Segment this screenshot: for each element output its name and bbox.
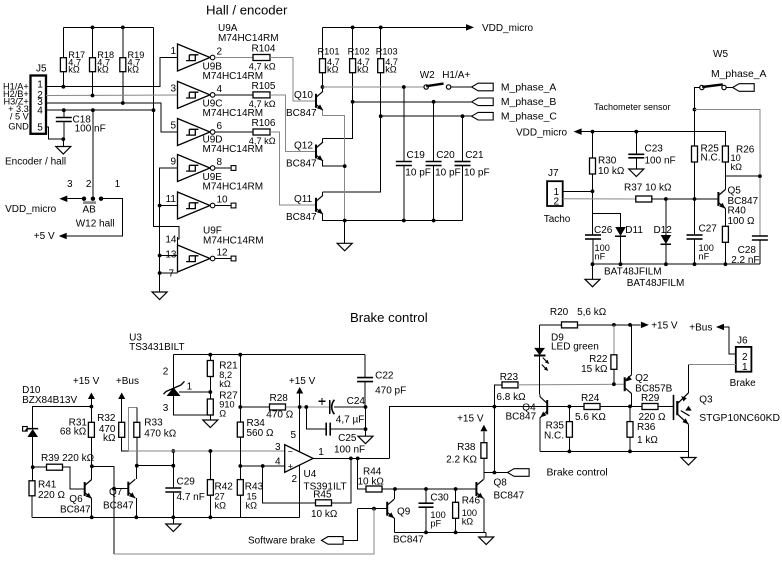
- svg-text:5: 5: [290, 430, 296, 441]
- svg-text:R104: R104: [252, 43, 276, 54]
- junction R45 feedback plus: [261, 464, 265, 468]
- wire unused-input ground bus: [160, 168, 178, 292]
- resistor R30 10 kOhm: [592, 132, 594, 158]
- junction rail C20: [432, 219, 436, 223]
- wire R46 to emitter row: [455, 518, 457, 532]
- junction R102 row B: [351, 100, 355, 104]
- net arrow VDD_micro tacho: [574, 128, 582, 135]
- svg-text:470 Ω: 470 Ω: [266, 410, 293, 421]
- svg-text:AB: AB: [83, 204, 97, 215]
- svg-text:15 kΩ: 15 kΩ: [581, 364, 608, 375]
- svg-text:BC847: BC847: [494, 490, 525, 501]
- wire VDD tacho rail: [582, 132, 726, 146]
- capacitor C25 100 nF: [326, 423, 330, 436]
- resistor R22 15 kOhm: [611, 355, 617, 370]
- svg-text:M_phase_B: M_phase_B: [501, 97, 557, 108]
- svg-text:+Bus: +Bus: [689, 323, 712, 334]
- svg-text:BC847: BC847: [286, 159, 317, 170]
- inverter U9B M74HC14RM: [178, 81, 211, 108]
- svg-text:3: 3: [170, 83, 176, 94]
- svg-text:11: 11: [166, 194, 177, 205]
- svg-text:+5 V: +5 V: [34, 231, 55, 242]
- svg-text:U9A: U9A: [218, 23, 238, 34]
- svg-text:nF: nF: [595, 252, 606, 262]
- svg-text:BC847: BC847: [286, 212, 317, 223]
- wire R38 to Q8 collector node: [483, 458, 485, 472]
- junction Q6 emitter rail: [90, 515, 94, 519]
- wire R44 to Q8 base: [382, 488, 476, 490]
- resistor R104 4,7 kOhm: [253, 55, 270, 61]
- junction rail ground tacho: [591, 262, 595, 266]
- svg-text:3: 3: [67, 179, 73, 190]
- junction C27 node: [693, 197, 697, 201]
- wire R35 to rail: [568, 437, 570, 451]
- wire Q11 emitter: [323, 214, 463, 220]
- junction C29 rail: [171, 515, 175, 519]
- svg-text:7: 7: [168, 268, 174, 279]
- wire Q2 emitter: [631, 325, 633, 375]
- wire R44 branch: [358, 458, 366, 489]
- junction R34 R28 node: [238, 405, 242, 409]
- wire U9F output stub: [215, 258, 231, 260]
- wire R41 to rail: [31, 496, 33, 518]
- svg-text:560 Ω: 560 Ω: [247, 428, 274, 439]
- wire pin13 stub: [160, 255, 178, 257]
- jumper W12 hall: [82, 197, 86, 201]
- junction R22 bottom: [612, 382, 616, 386]
- wire R22 to base row: [613, 369, 615, 384]
- wire R18 lead: [92, 72, 94, 96]
- wire R32 to R33 link: [122, 437, 129, 451]
- wire R20 row: [540, 324, 562, 326]
- svg-text:5: 5: [37, 123, 43, 134]
- svg-text:BC847: BC847: [393, 535, 424, 546]
- svg-text:STGP10NC60KD: STGP10NC60KD: [699, 413, 780, 424]
- flag Brake control: [508, 469, 530, 477]
- svg-text:M74HC14RM: M74HC14RM: [203, 235, 264, 246]
- svg-text:4: 4: [217, 84, 223, 95]
- svg-text:3: 3: [163, 403, 169, 414]
- resistor R39 220 kOhm: [33, 466, 48, 468]
- wire plus input row: [240, 465, 284, 467]
- svg-text:J7: J7: [548, 168, 559, 179]
- svg-text:10 kΩ: 10 kΩ: [358, 476, 385, 487]
- junction pin2 R18: [91, 94, 95, 98]
- junction Q4 node R23: [493, 405, 497, 409]
- junction brake control node: [493, 471, 497, 475]
- svg-text:kΩ: kΩ: [68, 64, 80, 74]
- svg-text:100 Ω: 100 Ω: [728, 216, 755, 227]
- igbt Q3 STGP10NC60KD: [674, 393, 690, 425]
- junction R25 branch: [693, 108, 697, 112]
- svg-text:C23: C23: [645, 144, 664, 155]
- wire Q8 collector row to flag: [484, 472, 508, 474]
- zener diode D10 BZX84B13V: [23, 427, 28, 432]
- capacitor C29 4.7 nF: [165, 488, 181, 492]
- wire R21 to ref: [209, 377, 211, 393]
- wire Q4 node vertical: [493, 407, 495, 473]
- svg-text:C21: C21: [465, 150, 484, 161]
- wire R43 to rail: [239, 495, 241, 517]
- flag Software brake: [322, 537, 344, 545]
- terminator pin 8: [231, 166, 236, 171]
- svg-text:4: 4: [275, 456, 281, 467]
- junction supply pin4: [152, 108, 156, 112]
- svg-text:+15 V: +15 V: [289, 376, 316, 387]
- wire Q6 collector to Q7 base: [92, 466, 128, 488]
- resistor R32 470 kOhm: [119, 422, 125, 437]
- wire W5 left to R25: [695, 88, 700, 147]
- junction R44 R46: [454, 487, 458, 491]
- wire software brake return: [114, 509, 374, 554]
- junction row R46: [454, 531, 458, 535]
- wire brake-left ground rail: [32, 516, 300, 518]
- transistor Q6 BC847: [85, 480, 92, 499]
- wire R33 to Q7 collector: [136, 437, 138, 465]
- junction software brake branch: [112, 487, 116, 491]
- capacitor C24 4,7 uF: [319, 400, 326, 402]
- wire R32-R33 gray link: [128, 407, 136, 451]
- svg-text:Hall / encoder: Hall / encoder: [206, 2, 288, 17]
- wire Q4 emitter down: [539, 418, 541, 451]
- wire R105 input: [215, 94, 253, 96]
- svg-text:10: 10: [217, 195, 229, 206]
- svg-text:N.C.: N.C.: [701, 153, 721, 164]
- resistor R45 10 kOhm: [316, 500, 332, 506]
- svg-text:R45: R45: [313, 489, 332, 500]
- connector J7: [547, 181, 563, 206]
- wire U4 pin5: [299, 407, 301, 452]
- junction Q6 collector node: [90, 464, 94, 468]
- svg-text:1: 1: [187, 381, 193, 392]
- capacitor C28 2.2 nF: [752, 236, 768, 240]
- resistor R35 N.C.: [568, 407, 570, 422]
- ground Q3: [688, 451, 690, 457]
- svg-text:5: 5: [170, 121, 176, 132]
- flag M_phase_B: [472, 98, 494, 106]
- junction rail R18: [91, 26, 95, 30]
- wire R24 to R29 node: [600, 406, 642, 408]
- net arrow +15V R20: [641, 322, 649, 329]
- ground U3: [203, 420, 218, 428]
- junction J7 pin1: [591, 189, 595, 193]
- svg-text:Software brake: Software brake: [248, 536, 316, 547]
- svg-text:2: 2: [291, 474, 297, 485]
- junction Q2 collector R24 R29 R36: [628, 405, 632, 409]
- wire R20 to +15V arrow: [578, 324, 641, 326]
- svg-text:TS3431BILT: TS3431BILT: [129, 342, 184, 353]
- wire J7 pin2 row: [563, 198, 636, 200]
- svg-text:13: 13: [165, 249, 177, 260]
- resistor R17 4,7 kOhm: [62, 27, 64, 57]
- wire U4 pin2: [299, 465, 301, 517]
- svg-text:M_phase_A: M_phase_A: [711, 69, 767, 80]
- wire R103 to Q11 collector: [323, 73, 381, 192]
- wire Q9 collector: [394, 489, 396, 499]
- svg-text:J5: J5: [36, 63, 47, 74]
- svg-text:R28: R28: [270, 393, 289, 404]
- shunt reference U3 TS3431BILT: [167, 388, 181, 397]
- net arrow +5V: [59, 233, 67, 240]
- wire J6 pin2 to +Bus: [724, 327, 736, 354]
- svg-text:R103: R103: [376, 47, 398, 57]
- svg-text:R37 10 kΩ: R37 10 kΩ: [624, 182, 672, 193]
- svg-text:GND: GND: [8, 121, 29, 131]
- wire W5 to flag: [726, 87, 732, 89]
- wire output up to Q4 row: [390, 407, 495, 459]
- junction Q7 collector node: [135, 464, 139, 468]
- svg-text:470 kΩ: 470 kΩ: [144, 428, 176, 439]
- svg-text:R40: R40: [728, 205, 747, 216]
- junction R44 C30: [424, 487, 428, 491]
- wire C25 branch down: [306, 407, 326, 429]
- wire U4 output: [313, 457, 390, 459]
- wire R106 to transistor base: [270, 132, 316, 205]
- svg-text:C19: C19: [407, 150, 426, 161]
- svg-text:pF: pF: [430, 519, 441, 529]
- capacitor C23 100 nF: [635, 132, 637, 155]
- svg-text:8: 8: [217, 157, 223, 168]
- junction VDD C23: [634, 130, 638, 134]
- svg-text:2: 2: [163, 367, 169, 378]
- svg-text:Q12: Q12: [294, 141, 313, 152]
- wire R104 input: [215, 57, 253, 59]
- junction bus pin11: [158, 204, 162, 208]
- net arrow VDD_micro top: [466, 24, 474, 31]
- svg-text:D11: D11: [625, 225, 643, 236]
- wire phase B row: [353, 101, 472, 103]
- transistor Q9 BC847: [387, 499, 394, 518]
- svg-text:Q11: Q11: [294, 194, 313, 205]
- jumper W2: [424, 85, 428, 89]
- svg-text:C20: C20: [436, 150, 455, 161]
- wire Q10 emitter: [323, 110, 345, 220]
- wire R23 to Q2 base: [518, 383, 625, 386]
- transistor Q2 BC857B: [625, 375, 632, 394]
- svg-text:W2: W2: [420, 70, 435, 81]
- wire R106 input: [215, 131, 253, 133]
- junction VDD R30: [591, 130, 595, 134]
- svg-text:Q10: Q10: [294, 90, 313, 101]
- junction row B C20: [432, 100, 436, 104]
- svg-text:Tacho: Tacho: [544, 214, 571, 225]
- svg-text:1 kΩ: 1 kΩ: [637, 435, 658, 446]
- wire R105 to transistor base: [270, 95, 316, 152]
- wire R25 lead to base node: [694, 162, 696, 199]
- svg-text:10 pF: 10 pF: [405, 167, 431, 178]
- wire Q3 emitter: [688, 424, 690, 451]
- svg-text:Q7: Q7: [109, 487, 123, 498]
- inverter U9F left edge extension: [177, 237, 179, 246]
- resistor R101 4,7 kOhm: [322, 27, 324, 58]
- svg-text:R24: R24: [581, 393, 600, 404]
- wire Q5 collector: [724, 176, 726, 189]
- resistor R41 220 Ohm: [32, 467, 34, 481]
- resistor R46 100 kOhm: [455, 489, 457, 502]
- junction C29 minus-net: [171, 449, 175, 453]
- svg-text:100 nF: 100 nF: [645, 155, 676, 166]
- capacitor C20 10 pF: [433, 102, 435, 162]
- connector J6: [736, 347, 752, 372]
- svg-text:14: 14: [165, 234, 177, 245]
- wire R28 row: [240, 406, 269, 408]
- transistor Q4 BC847 mirrored: [540, 397, 547, 419]
- resistor R25 N.C.: [692, 146, 698, 162]
- svg-text:BC847: BC847: [103, 501, 134, 512]
- ground tacho: [592, 264, 594, 279]
- svg-text:+Bus: +Bus: [116, 376, 139, 387]
- svg-text:kΩ: kΩ: [128, 64, 140, 74]
- junction rail R103: [379, 26, 383, 30]
- junction R42 rail: [209, 515, 213, 519]
- wire Q8 collector: [483, 473, 485, 480]
- wire W2 to flag A: [451, 86, 472, 88]
- wire U3 ref pin1: [179, 391, 210, 393]
- junction bus pin7: [158, 271, 162, 275]
- capacitor C21 10 pF: [462, 116, 464, 161]
- wire pin7 stub: [160, 272, 178, 274]
- wire J5 pin5 to ground: [46, 127, 63, 139]
- junction rail R21: [208, 353, 212, 357]
- led D9 green: [539, 325, 541, 348]
- svg-text:D12: D12: [654, 225, 673, 236]
- svg-text:+: +: [288, 461, 293, 471]
- wire Q6 collector: [91, 466, 93, 479]
- svg-text:R105: R105: [252, 81, 276, 92]
- capacitor C27 100 nF: [694, 199, 696, 235]
- svg-text:Ω: Ω: [219, 408, 226, 418]
- wire pin11 stub: [160, 205, 178, 207]
- svg-text:Q9: Q9: [397, 506, 411, 517]
- wire hall supply vertical: [154, 27, 180, 239]
- svg-text:kΩ: kΩ: [246, 500, 258, 510]
- resistor R43 15 kOhm: [239, 466, 241, 480]
- wire U9D output stub: [215, 167, 231, 169]
- capacitor C26 100 nF: [592, 213, 594, 235]
- svg-text:3: 3: [275, 442, 281, 453]
- junction R22 top: [612, 323, 616, 327]
- wire R34 to plus node: [239, 437, 241, 466]
- svg-text:W12 hall: W12 hall: [76, 219, 115, 230]
- svg-text:12: 12: [217, 248, 229, 259]
- svg-text:H1/A+: H1/A+: [442, 70, 470, 81]
- wire Q9 emitter row: [395, 531, 487, 533]
- svg-text:10 kΩ: 10 kΩ: [311, 509, 338, 520]
- resistor R102 4,7 kOhm: [352, 27, 354, 58]
- wire R45 right: [332, 458, 351, 502]
- svg-text:10 pF: 10 pF: [435, 167, 461, 178]
- svg-text:C24: C24: [347, 396, 366, 407]
- wire Q12 emitter: [323, 161, 345, 166]
- svg-text:68 kΩ: 68 kΩ: [60, 426, 87, 437]
- wire R39 to Q6 base: [63, 467, 85, 489]
- wire R28 to C24: [286, 406, 330, 408]
- wire R45 feedback left: [263, 466, 316, 503]
- junction rail C19: [402, 219, 406, 223]
- resistor R19 4,7 kOhm: [122, 27, 124, 57]
- wire J5 pin3 to U9C: [46, 103, 178, 132]
- ground Q8: [485, 532, 487, 537]
- svg-text:Tachometer sensor: Tachometer sensor: [594, 102, 671, 112]
- capacitor C18 100 nF: [63, 110, 65, 117]
- diode D11 BAT48JFILM: [615, 227, 626, 236]
- wire Q4 collector to D9: [539, 394, 541, 396]
- resistor R23 6.8 kOhm: [494, 385, 502, 407]
- resistor R24 5.6 KOhm: [584, 404, 600, 410]
- svg-text:kΩ: kΩ: [97, 64, 109, 74]
- svg-text:kΩ: kΩ: [385, 64, 397, 74]
- svg-text:4: 4: [37, 106, 43, 117]
- svg-text:R39 220 kΩ: R39 220 kΩ: [41, 453, 95, 464]
- svg-text:nF: nF: [699, 252, 710, 262]
- wire U3 cathode: [173, 355, 175, 388]
- svg-text:C26: C26: [594, 225, 613, 236]
- resistor R103 4,7 kOhm: [380, 27, 382, 58]
- junction rail D12: [664, 262, 668, 266]
- wire tacho ground rail: [593, 263, 760, 265]
- svg-text:+15 V: +15 V: [73, 376, 100, 387]
- capacitor C19 10 pF: [403, 87, 405, 162]
- svg-text:−: −: [288, 447, 293, 457]
- wire R26 to Q5 collector: [724, 162, 726, 176]
- svg-text:kΩ: kΩ: [219, 379, 231, 389]
- svg-text:4.7 nF: 4.7 nF: [177, 492, 205, 503]
- flag M_phase_C: [472, 112, 494, 120]
- resistor R37 10 kOhm: [636, 196, 652, 202]
- inverter U9A M74HC14RM: [178, 44, 211, 71]
- svg-text:10 pF: 10 pF: [464, 167, 490, 178]
- wire collector to C28 branch: [725, 175, 760, 177]
- svg-text:kΩ: kΩ: [462, 517, 474, 527]
- svg-text:M_phase_C: M_phase_C: [501, 112, 558, 123]
- resistor R31 68 kOhm: [88, 422, 94, 437]
- svg-text:BC847: BC847: [60, 504, 91, 515]
- junction rail R34 branch: [238, 353, 242, 357]
- svg-text:+15 V: +15 V: [651, 321, 678, 332]
- junction C29 top: [171, 464, 175, 468]
- junction R35 top: [568, 405, 572, 409]
- svg-text:2: 2: [86, 179, 92, 190]
- wire R42 to rail: [209, 495, 211, 517]
- junction pin1 R17: [62, 85, 66, 89]
- svg-text:C22: C22: [375, 370, 394, 381]
- svg-text:VDD_micro: VDD_micro: [5, 204, 57, 215]
- wire flag to Q9 base: [343, 509, 358, 541]
- svg-text:Brake control: Brake control: [350, 310, 428, 325]
- wire J7 pin1: [563, 190, 593, 192]
- svg-text:2: 2: [553, 197, 559, 208]
- resistor R36 1 kOhm: [629, 407, 631, 422]
- resistor R105 4,7 kOhm: [253, 92, 270, 98]
- wire U9E output stub: [215, 205, 231, 207]
- svg-text:kΩ: kΩ: [215, 500, 227, 510]
- junction minus R42: [209, 449, 213, 453]
- wire phase C row: [381, 115, 472, 117]
- svg-text:C30: C30: [430, 493, 449, 504]
- resistor R34 560 Ohm: [239, 407, 241, 422]
- resistor R27 910 Ohm: [209, 392, 211, 399]
- inverter U9C M74HC14RM: [178, 119, 211, 146]
- svg-text:1: 1: [115, 179, 121, 190]
- svg-text:R102: R102: [348, 47, 370, 57]
- wire R104 to transistor base: [270, 58, 316, 101]
- resistor R33 470 kOhm: [136, 407, 138, 422]
- svg-text:R30: R30: [598, 156, 617, 167]
- svg-text:BC847: BC847: [506, 412, 537, 423]
- junction Q7 emitter rail: [134, 515, 138, 519]
- svg-text:J6: J6: [737, 335, 748, 346]
- transistor Q8 BC847: [476, 480, 483, 499]
